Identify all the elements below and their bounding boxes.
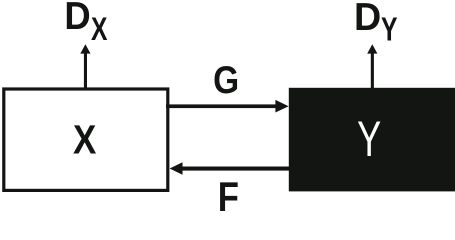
svg-text:Y: Y — [357, 111, 381, 167]
arrow F (Y to X) — [170, 162, 289, 175]
svg-text:X: X — [73, 118, 97, 163]
label Y — [357, 111, 381, 167]
arrow DY (Y box up to DY) — [367, 44, 377, 88]
svg-text:D: D — [354, 0, 381, 39]
label DX — [64, 0, 90, 37]
box Y — [289, 88, 455, 192]
svg-text:G: G — [213, 58, 239, 102]
box X — [4, 89, 168, 190]
label G — [213, 58, 239, 102]
svg-text:X: X — [91, 12, 107, 48]
svg-text:D: D — [64, 0, 90, 37]
label F — [218, 174, 239, 221]
label X — [73, 118, 97, 163]
label DX subscript — [91, 12, 107, 48]
label DY subscript — [381, 12, 398, 48]
svg-text:F: F — [218, 174, 239, 214]
arrow G (X to Y) — [166, 100, 289, 113]
arrow DX (X box up to DX) — [80, 44, 90, 88]
label DY — [354, 0, 381, 39]
svg-text:Y: Y — [381, 12, 398, 48]
